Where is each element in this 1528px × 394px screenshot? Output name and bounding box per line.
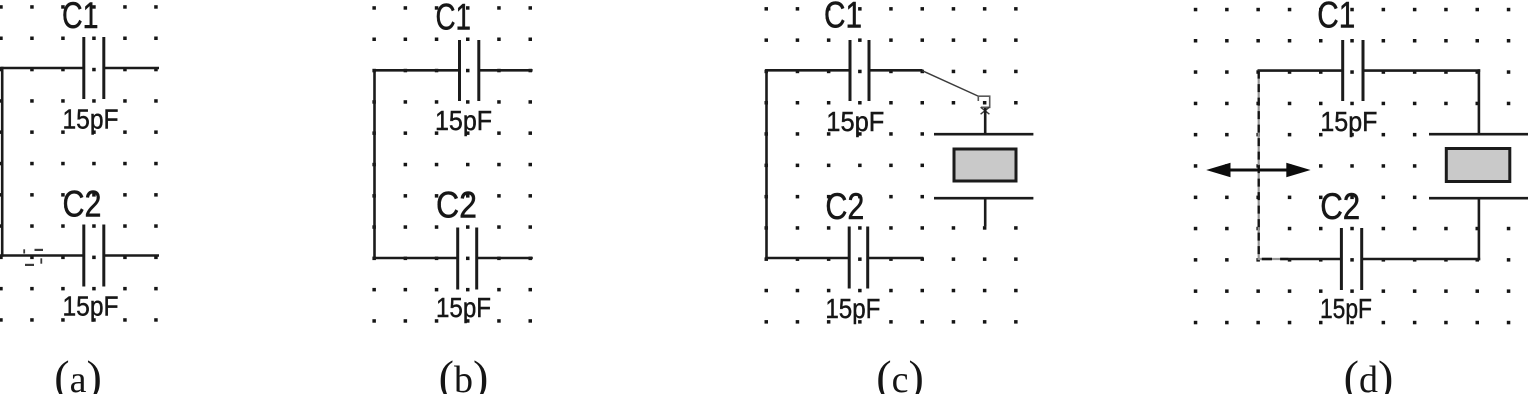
- wire: panel c top horizontal: [765, 69, 922, 72]
- crystal Y1 (panel c): top electrode: [934, 133, 1033, 136]
- move arrow left head: [1206, 163, 1230, 178]
- wire: panel b bottom horizontal: [373, 257, 533, 260]
- svg-text:C1: C1: [824, 0, 862, 36]
- pin hotspot x-mark: [981, 107, 990, 114]
- svg-text:15pF: 15pF: [435, 105, 492, 136]
- wire: panel d right vertical bottom segment: [1478, 198, 1481, 260]
- crystal Y1 (panel c): bottom electrode: [934, 197, 1033, 200]
- move arrow right head: [1286, 163, 1310, 178]
- selected wire: panel d bottom stub (gray base + black dashes): [1258, 258, 1290, 260]
- svg-text:15pF: 15pF: [826, 106, 884, 137]
- grid dots panel b: [372, 6, 532, 323]
- svg-text:C2: C2: [63, 184, 102, 225]
- capacitor C1 (panel a) plates: [84, 37, 104, 99]
- svg-text:15pF: 15pF: [436, 292, 491, 323]
- svg-text:15pF: 15pF: [63, 291, 119, 322]
- crystal Y1 (panel c): body: [954, 149, 1016, 181]
- grid dots panel d: [1194, 8, 1511, 325]
- capacitor C2 (panel d) plates: [1341, 228, 1361, 290]
- grid dots panel c: [765, 7, 1018, 324]
- move arrow (double-headed) shaft: [1212, 169, 1304, 172]
- capacitor C2 (panel a) plates: [84, 225, 104, 287]
- svg-text:C1: C1: [62, 0, 99, 36]
- capacitor C1 (panel d) plates: [1343, 40, 1363, 101]
- drag handle square: [978, 96, 989, 107]
- grid dots panel a: [0, 5, 158, 322]
- svg-text:C1: C1: [436, 0, 472, 38]
- wire: panel a left vertical: [1, 67, 4, 257]
- wire: panel d right vertical top segment: [1478, 69, 1481, 134]
- svg-text:C2: C2: [436, 185, 477, 226]
- capacitor C2 (panel c) plates: [849, 227, 868, 289]
- wire: panel a top horizontal: [0, 67, 159, 70]
- svg-text:15pF: 15pF: [63, 104, 119, 135]
- svg-text:C2: C2: [825, 186, 864, 227]
- wire: panel b left vertical: [373, 69, 376, 259]
- svg-text:C1: C1: [1317, 0, 1355, 36]
- wire: panel c bottom horizontal: [765, 257, 923, 260]
- wire: panel c left vertical: [765, 69, 768, 259]
- crystal Y1 (panel d): body: [1446, 149, 1510, 182]
- wire: panel b top horizontal: [373, 69, 532, 72]
- svg-text:15pF: 15pF: [1320, 106, 1377, 137]
- capacitor C1 (panel c) plates: [850, 40, 869, 101]
- selected wire: panel d left vertical (gray base + black dashes): [1258, 71, 1260, 259]
- wire: panel d top horizontal: [1258, 69, 1481, 72]
- wire: panel d bottom horizontal: [1288, 258, 1480, 261]
- junction artifact marks near panel a corner: [23, 249, 43, 266]
- capacitor C2 (panel b) plates: [458, 228, 477, 290]
- crystal Y1 (panel c): top pin: [984, 108, 987, 134]
- rubber-band wire (diagonal drag line): [923, 71, 980, 97]
- wire: panel a bottom horizontal: [0, 254, 159, 257]
- svg-text:15pF: 15pF: [825, 293, 880, 324]
- crystal Y1 (panel d): bottom electrode: [1429, 197, 1528, 200]
- svg-text:15pF: 15pF: [1320, 293, 1372, 324]
- crystal Y1 (panel c): bottom pin: [984, 198, 987, 226]
- svg-text:C2: C2: [1320, 186, 1360, 227]
- crystal Y1 (panel d): top electrode: [1429, 133, 1528, 136]
- capacitor C1 (panel b) plates: [460, 40, 479, 101]
